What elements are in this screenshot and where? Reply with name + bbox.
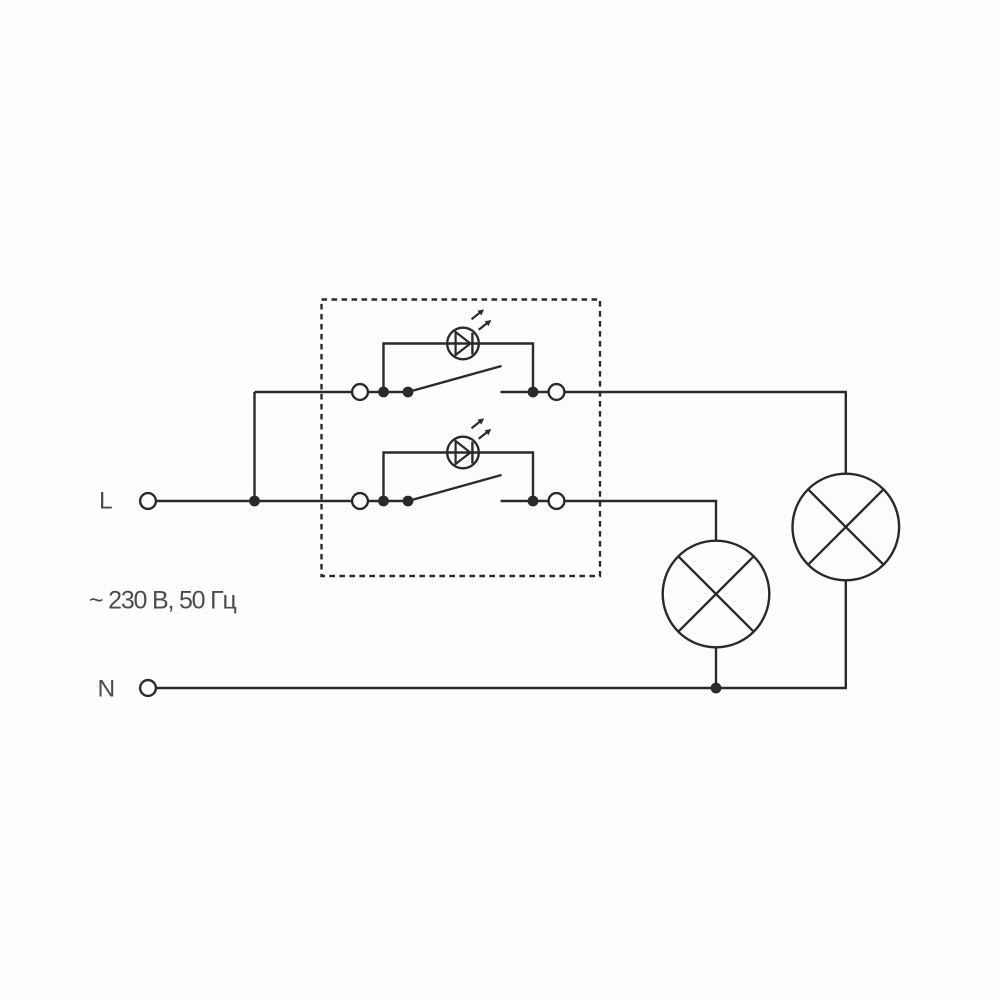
LED HL1 light arrow 1 xyxy=(470,307,486,322)
LED HL2 branch wire xyxy=(384,453,534,502)
LED HL2 light arrow 2 xyxy=(477,427,493,442)
svg-text:L: L xyxy=(99,488,113,515)
wire S1 output xyxy=(501,392,846,474)
junction N lamp1 xyxy=(711,683,722,694)
lamp EL2 (right) xyxy=(793,474,900,581)
pin dot S1 a xyxy=(378,387,389,398)
wire branch riser xyxy=(253,392,255,501)
switch S1 blade xyxy=(408,366,502,392)
terminal N xyxy=(140,680,156,696)
wire L to bottom switch xyxy=(360,500,408,502)
lamp EL1 (left) xyxy=(663,541,770,688)
LED HL1 light arrow 2 xyxy=(477,318,493,333)
pin dot S1 c xyxy=(528,387,539,398)
LED HL2 xyxy=(447,416,493,468)
pin dot S2 b xyxy=(403,496,414,507)
terminal S2 left xyxy=(352,493,368,509)
LED HL1 xyxy=(447,307,493,359)
pin dot S1 b xyxy=(403,387,414,398)
svg-text:~ 230 В, 50 Гц: ~ 230 В, 50 Гц xyxy=(89,587,236,615)
switch S2 blade xyxy=(408,475,502,501)
wire N bus xyxy=(157,581,846,689)
terminal S1 left xyxy=(352,384,368,400)
LED HL2 light arrow 1 xyxy=(470,416,486,431)
switch unit enclosure (dashed) xyxy=(322,300,601,577)
switch S2 (bottom gang) xyxy=(352,475,716,541)
wire L feed xyxy=(157,500,361,502)
pin dot S2 c xyxy=(528,496,539,507)
terminal L xyxy=(140,493,156,509)
terminal S2 right xyxy=(549,493,565,509)
svg-text:N: N xyxy=(98,676,116,703)
pin dot S2 a xyxy=(378,496,389,507)
wire branch to top switch xyxy=(255,391,409,393)
wire S2 output xyxy=(501,501,717,541)
wire lamp EL1 to N xyxy=(715,647,717,688)
junction L branch xyxy=(249,496,260,507)
terminal S1 right xyxy=(549,384,565,400)
LED HL1 branch wire xyxy=(384,344,534,393)
switch S1 (top gang) xyxy=(352,366,846,474)
